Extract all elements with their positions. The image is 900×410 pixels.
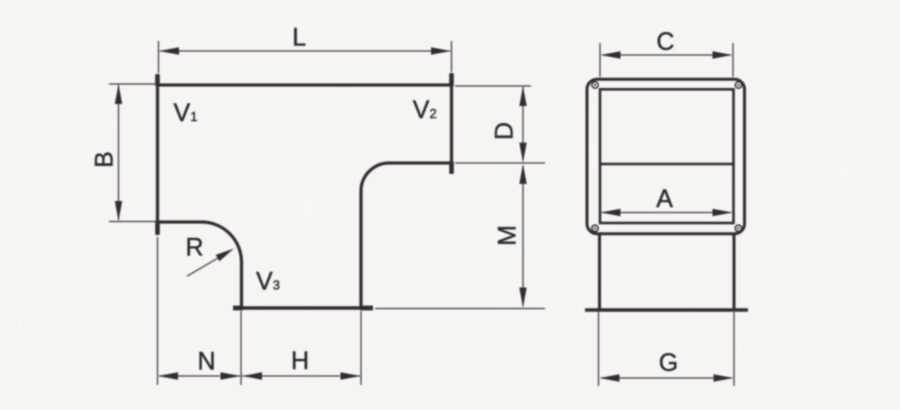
svg-text:H: H [291, 347, 309, 375]
svg-text:D: D [491, 122, 519, 140]
svg-text:A: A [656, 185, 673, 213]
svg-text:L: L [292, 24, 306, 52]
svg-text:C: C [656, 28, 674, 56]
svg-text:R: R [186, 234, 204, 262]
svg-text:B: B [90, 151, 118, 168]
svg-text:M: M [494, 225, 522, 246]
svg-text:N: N [198, 348, 216, 376]
svg-text:G: G [659, 349, 678, 377]
